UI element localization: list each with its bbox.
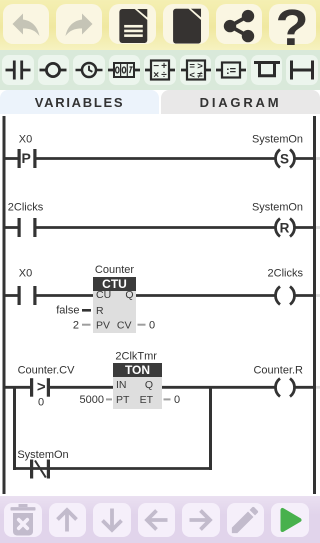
svg-text:CV: CV bbox=[117, 320, 132, 332]
svg-text:Q: Q bbox=[125, 289, 133, 301]
svg-text:<: < bbox=[189, 70, 195, 81]
wire 2 to PV bbox=[82, 324, 91, 326]
rung 3 wire: rail to contact bbox=[4, 294, 18, 297]
left button bbox=[138, 503, 176, 537]
rung 3 wire: contact to CTU bbox=[37, 294, 94, 297]
comparator contact Counter.CV > 0 bbox=[30, 378, 33, 397]
svg-text:0: 0 bbox=[38, 397, 44, 409]
svg-text:P: P bbox=[22, 150, 31, 166]
rung 1 faint edge wire bbox=[316, 157, 320, 160]
coil 2Clicks bbox=[276, 287, 281, 305]
branch left vertical wire bbox=[13, 386, 16, 470]
rung 2 wire: coil to rail bbox=[296, 226, 315, 229]
up button bbox=[49, 503, 87, 537]
svg-text:2Clicks: 2Clicks bbox=[8, 202, 44, 214]
timer tool bbox=[73, 55, 105, 85]
edit button bbox=[227, 503, 265, 537]
open document button bbox=[109, 4, 156, 44]
rung 2 wire: contact to coil bbox=[37, 226, 276, 229]
svg-text:X0: X0 bbox=[19, 268, 32, 280]
svg-text::=: := bbox=[226, 65, 236, 77]
counter block CTU bbox=[93, 277, 136, 291]
rung 2 wire: rail to contact bbox=[4, 226, 18, 229]
svg-text:IN: IN bbox=[116, 379, 127, 391]
rung 3 faint edge wire bbox=[316, 294, 320, 297]
svg-text:≠: ≠ bbox=[197, 70, 203, 81]
undo button bbox=[3, 4, 50, 44]
svg-text:S: S bbox=[280, 151, 289, 166]
svg-text:5000: 5000 bbox=[80, 394, 104, 406]
rung 1 wire: coil to rail bbox=[296, 157, 315, 160]
wire CV to 0 bbox=[138, 324, 146, 326]
svg-text:0: 0 bbox=[149, 320, 155, 332]
rung 4 wire: comparator to TON bbox=[50, 386, 113, 389]
coil Counter.R bbox=[276, 379, 281, 397]
tab bar bbox=[0, 90, 320, 114]
svg-text:CU: CU bbox=[96, 289, 111, 301]
right power rail bbox=[313, 116, 316, 494]
wire false to R bbox=[82, 309, 91, 312]
redo button bbox=[56, 4, 103, 44]
svg-text:X0: X0 bbox=[19, 134, 32, 146]
contact X0 (P) bbox=[18, 149, 21, 168]
svg-text:Q: Q bbox=[145, 379, 153, 391]
run button bbox=[271, 503, 309, 537]
branch tool bbox=[251, 55, 283, 85]
svg-text:×: × bbox=[153, 70, 159, 81]
contact tool bbox=[2, 55, 34, 85]
math tool bbox=[144, 55, 176, 85]
svg-text:SystemOn: SystemOn bbox=[252, 202, 303, 214]
rung 4 wire: coil to rail bbox=[296, 386, 315, 389]
branch right vertical wire bbox=[209, 386, 212, 470]
svg-text:Counter: Counter bbox=[95, 264, 134, 276]
contact X0 bbox=[18, 286, 21, 305]
svg-text:2: 2 bbox=[73, 320, 79, 332]
help button bbox=[269, 4, 316, 44]
rung 4 wire: rail to comparator bbox=[4, 386, 30, 389]
svg-text:ET: ET bbox=[140, 394, 154, 406]
svg-text:0: 0 bbox=[174, 394, 180, 406]
counter tool bbox=[109, 55, 141, 85]
svg-text:SystemOn: SystemOn bbox=[252, 134, 303, 146]
rung 3 wire: coil to rail bbox=[296, 294, 315, 297]
svg-text:PV: PV bbox=[96, 320, 110, 332]
rung 4 wire: TON Q to coil bbox=[162, 386, 275, 389]
top toolbar bbox=[0, 0, 320, 50]
coil tool bbox=[38, 55, 70, 85]
branch horizontal wire bbox=[13, 467, 212, 470]
svg-text:PT: PT bbox=[116, 394, 130, 406]
rung 1 wire: contact to coil bbox=[37, 157, 276, 160]
contact 2Clicks bbox=[18, 218, 21, 237]
svg-text:2ClkTmr: 2ClkTmr bbox=[115, 351, 157, 363]
rung 2 faint edge wire bbox=[316, 226, 320, 229]
left power rail bbox=[3, 116, 6, 494]
svg-text:>: > bbox=[37, 379, 46, 396]
svg-text:R: R bbox=[280, 220, 290, 235]
rung 3 wire: CTU Q to coil bbox=[136, 294, 275, 297]
svg-text:SystemOn: SystemOn bbox=[17, 449, 68, 461]
wire 5000 to PT bbox=[106, 398, 112, 400]
VARIABLES tab bbox=[0, 90, 159, 114]
move tool bbox=[215, 55, 247, 85]
svg-text:2Clicks: 2Clicks bbox=[268, 268, 304, 280]
svg-text:TON: TON bbox=[125, 363, 150, 377]
coil SystemOn (R) bbox=[276, 219, 281, 237]
svg-text:false: false bbox=[56, 305, 79, 317]
svg-text:Counter.R: Counter.R bbox=[253, 365, 303, 377]
svg-text:?: ? bbox=[276, 1, 309, 47]
share button bbox=[216, 4, 263, 44]
new document button bbox=[163, 4, 210, 44]
svg-text:R: R bbox=[96, 305, 104, 317]
svg-text:Counter.CV: Counter.CV bbox=[18, 365, 76, 377]
wire tool bbox=[286, 55, 318, 85]
timer block TON bbox=[113, 363, 162, 377]
rung 1 wire: rail to contact bbox=[4, 157, 18, 160]
rung 4 faint edge wire bbox=[316, 386, 320, 389]
ladder element toolbar bbox=[0, 50, 320, 90]
compare tool bbox=[180, 55, 212, 85]
ladder diagram canvas bbox=[0, 114, 320, 496]
right button bbox=[182, 503, 220, 537]
wire ET to 0 bbox=[164, 398, 171, 400]
NC contact SystemOn bbox=[30, 460, 33, 479]
svg-text:÷: ÷ bbox=[161, 70, 167, 81]
bottom toolbar bbox=[0, 496, 320, 543]
down button bbox=[93, 503, 131, 537]
delete button bbox=[4, 503, 42, 537]
coil SystemOn (S) bbox=[276, 150, 281, 168]
DIAGRAM tab bbox=[161, 90, 320, 114]
